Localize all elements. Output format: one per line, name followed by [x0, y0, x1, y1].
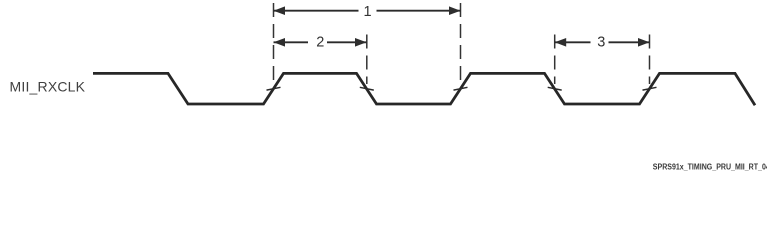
- dashed reference line at second rising edge (end of 1): [460, 3, 462, 84]
- svg-text:1: 1: [364, 4, 372, 20]
- svg-text:SPRS91x_TIMING_PRU_MII_RT_04: SPRS91x_TIMING_PRU_MII_RT_04: [653, 163, 767, 172]
- arrowhead 3 right: [638, 38, 650, 47]
- arrowhead 1 right: [449, 6, 461, 15]
- svg-text:MII_RXCLK: MII_RXCLK: [10, 79, 86, 95]
- arrowhead 2 right: [355, 38, 367, 47]
- tick mark on rising edge 3: [454, 87, 468, 90]
- dashed reference line at falling edge (start of 3): [554, 35, 556, 85]
- tick mark on rising edge 5: [643, 87, 657, 90]
- arrowhead 3 left: [555, 38, 567, 47]
- tick mark on rising edge 1: [267, 87, 281, 90]
- tick mark on falling edge 2: [360, 87, 374, 90]
- svg-text:2: 2: [316, 35, 324, 51]
- dimension arrow 2 line: [274, 41, 309, 43]
- arrowhead 1 left: [274, 6, 286, 15]
- dashed reference line at rising edge (end of 3): [649, 35, 651, 85]
- tick mark on falling edge 4: [548, 87, 562, 90]
- dashed reference line at falling edge (end of 2): [366, 35, 368, 85]
- wire MII_RXCLK waveform: [93, 73, 755, 105]
- arrowhead 2 left: [274, 38, 286, 47]
- svg-text:3: 3: [597, 35, 605, 51]
- dashed reference line at first rising edge: [273, 3, 275, 84]
- dimension arrow 3 line: [555, 41, 591, 43]
- dimension arrow 1 line: [274, 10, 359, 12]
